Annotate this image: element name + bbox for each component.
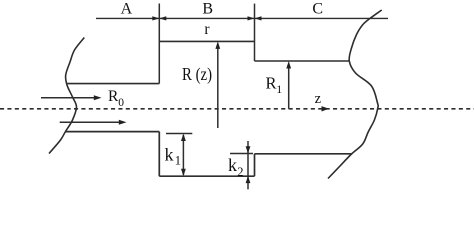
dim arrowhead left into B/C tick — [255, 16, 262, 20]
tick A/B — [158, 4, 160, 84]
waveguide top profile: section B top edge — [159, 40, 254, 42]
z axis arrowhead — [322, 106, 330, 111]
svg-text:r: r — [204, 21, 210, 38]
dim arrowhead right into A/B tick — [152, 16, 159, 20]
k2 down arrowhead — [246, 146, 251, 153]
top dimension line — [96, 17, 388, 19]
tick B/C — [254, 4, 256, 61]
right break curve — [328, 10, 382, 179]
svg-text:z: z — [315, 91, 322, 107]
svg-text:1: 1 — [175, 154, 181, 168]
svg-text:1: 1 — [276, 82, 282, 96]
svg-text:A: A — [121, 1, 133, 18]
svg-text:B: B — [202, 1, 213, 18]
dim arrowhead left into A/B tick — [159, 16, 166, 20]
svg-text:R (z): R (z) — [182, 64, 212, 85]
section C bottom edge — [255, 153, 352, 155]
lower propagation arrow — [60, 121, 121, 123]
R(z) arrow — [217, 44, 219, 128]
dim arrowhead right into B/C tick — [248, 16, 255, 20]
section B bottom edge — [159, 175, 254, 177]
R0 arrow — [41, 97, 96, 99]
section A top edge — [66, 83, 159, 85]
svg-text:2: 2 — [237, 165, 243, 179]
svg-text:0: 0 — [118, 97, 124, 109]
svg-text:k: k — [165, 144, 174, 164]
left break curve — [49, 38, 84, 154]
section C top edge — [255, 60, 351, 62]
k1 double arrow — [182, 135, 184, 175]
centerline (z axis, dashed) — [0, 108, 474, 110]
svg-text:R: R — [266, 73, 277, 92]
k2 extension tick — [230, 153, 253, 155]
step A->B bottom — [158, 132, 160, 177]
k1 extension tick — [166, 133, 192, 135]
R1 arrow — [288, 64, 290, 109]
waveguide bottom profile: section A bottom edge — [65, 131, 159, 133]
k2 up arrowhead — [246, 176, 251, 183]
k2 arrow line — [247, 141, 249, 189]
svg-text:C: C — [312, 1, 323, 18]
step B->C bottom — [254, 154, 256, 176]
svg-text:k: k — [228, 155, 237, 175]
